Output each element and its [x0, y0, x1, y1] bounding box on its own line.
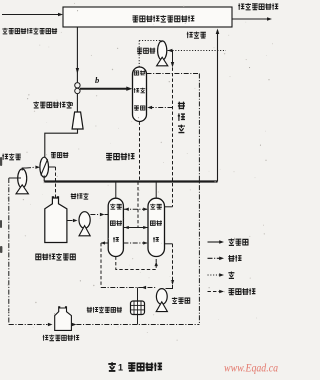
- svg-text:b: b: [95, 75, 99, 85]
- svg-text:www.Eqad.ca: www.Eqad.ca: [224, 361, 278, 375]
- svg-text:1: 1: [118, 363, 123, 373]
- svg-text:a: a: [70, 99, 74, 108]
